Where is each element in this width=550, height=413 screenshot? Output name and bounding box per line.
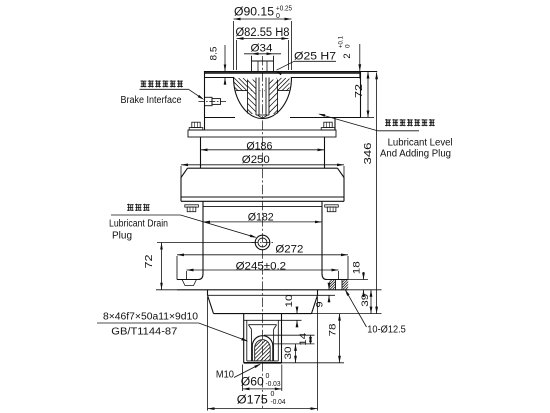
dimension 18	[348, 261, 382, 297]
dimension 14	[264, 333, 315, 346]
svg-text:0: 0	[266, 373, 270, 380]
brake housing plate underside	[205, 77, 361, 79]
svg-text:Lubricant Level: Lubricant Level	[388, 137, 453, 148]
brake housing top plate (thick)	[204, 72, 377, 73]
dimension 9	[315, 283, 336, 308]
svg-text:Plug: Plug	[112, 230, 132, 241]
label Plug	[112, 230, 132, 241]
svg-text:Ø245±0.2: Ø245±0.2	[236, 260, 287, 272]
svg-text:Ø82.55 H8: Ø82.55 H8	[236, 27, 290, 39]
output flange Ø272 body	[177, 280, 348, 290]
svg-text:8.5: 8.5	[209, 47, 220, 61]
svg-text:Ø186: Ø186	[246, 140, 272, 152]
svg-text:Ø25 H7: Ø25 H7	[294, 51, 336, 63]
svg-text:M10: M10	[216, 368, 234, 380]
dimension 78	[282, 314, 345, 363]
dimension 30	[283, 344, 297, 363]
dimension Ø272	[177, 243, 348, 279]
hub counterbore	[247, 320, 278, 361]
svg-text:Ø182: Ø182	[248, 211, 274, 223]
dimension Ø82.55 H8	[236, 27, 290, 70]
dimension 8.5	[209, 45, 227, 85]
dome hatched wall left band	[212, 79, 294, 115]
label brake interface (CJK)	[141, 80, 184, 87]
svg-text:72: 72	[144, 254, 155, 269]
label oil fill port (CJK)	[385, 119, 435, 126]
dimension 10 (cone to shoulder)	[282, 295, 302, 328]
dimension 346	[312, 72, 382, 313]
svg-text:Ø60: Ø60	[241, 377, 264, 389]
body Ø182 walls	[203, 201, 322, 273]
svg-text:Brake Interface: Brake Interface	[121, 95, 182, 106]
output hub outer	[244, 314, 282, 363]
svg-text:18: 18	[351, 261, 362, 274]
drain plug	[252, 235, 274, 250]
brake housing right wall	[360, 72, 362, 118]
dimension 72 left	[144, 243, 255, 290]
svg-text:Ø34: Ø34	[251, 43, 273, 55]
svg-text:0: 0	[276, 13, 280, 20]
label oil fill leader	[318, 114, 419, 131]
label Lubricant Drain	[109, 218, 168, 229]
svg-text:Ø90.15: Ø90.15	[234, 7, 274, 19]
dimension 2 +0.1/0	[338, 36, 362, 79]
flange Ø212 outline	[188, 130, 336, 137]
label drain plug (CJK)	[127, 204, 150, 211]
svg-text:Lubricant Drain: Lubricant Drain	[109, 218, 168, 229]
brake oil port fitting	[199, 97, 227, 105]
dome right shoulder block	[264, 78, 303, 114]
dimension Ø182	[203, 211, 322, 223]
input shaft stub Ø34	[252, 56, 274, 72]
spline bore end arch	[229, 336, 297, 361]
svg-text:78: 78	[328, 324, 339, 337]
flange bolt left	[189, 122, 203, 130]
brake housing left wall	[204, 72, 206, 131]
spigot Ø175	[208, 290, 318, 296]
label And Adding Plug	[380, 149, 451, 160]
svg-text:-0.03: -0.03	[266, 381, 281, 388]
label Lubricant Level	[388, 137, 453, 148]
svg-text:39: 39	[360, 294, 371, 307]
svg-text:8×46f7×50a11×9d10: 8×46f7×50a11×9d10	[103, 312, 198, 323]
dimension 72 right	[354, 72, 374, 118]
cylinder bolt right	[325, 205, 339, 212]
svg-text:9: 9	[315, 302, 326, 308]
svg-text:10: 10	[284, 295, 295, 308]
dimension Ø250	[181, 154, 344, 178]
label Brake Interface	[121, 95, 182, 106]
body fillets to flange	[199, 274, 327, 280]
svg-text:-0.04: -0.04	[271, 399, 286, 406]
dimension Ø34	[244, 43, 281, 56]
label brake interface leader	[140, 89, 205, 100]
svg-text:0: 0	[271, 391, 275, 398]
label spline spec	[97, 312, 248, 342]
dimension Ø245±0.2	[187, 260, 339, 279]
ring gear cylinder Ø250	[181, 168, 344, 201]
brake housing right step wall	[334, 118, 336, 131]
svg-text:Ø250: Ø250	[242, 154, 270, 166]
svg-text:Ø272: Ø272	[275, 243, 303, 255]
dimension Ø186	[201, 140, 325, 152]
hub bottom face (thick)	[244, 362, 282, 364]
main centerline	[262, 56, 264, 410]
neck Ø186 walls	[201, 137, 325, 168]
label M10	[216, 364, 261, 381]
svg-text:+0.25: +0.25	[276, 6, 292, 13]
dome left shoulder block	[221, 78, 265, 114]
svg-text:+0.1: +0.1	[338, 36, 345, 48]
svg-text:72: 72	[354, 83, 365, 98]
dimension Ø60 0/-0.03	[241, 365, 282, 392]
flange bolt right	[321, 122, 335, 130]
svg-text:0: 0	[345, 44, 352, 48]
dome outer curve	[234, 77, 292, 118]
flange bolt hole 10-Ø12.5	[320, 280, 358, 290]
svg-text:2: 2	[342, 53, 353, 58]
dimension 39	[360, 290, 372, 314]
cone section	[208, 295, 318, 313]
svg-text:346: 346	[363, 142, 374, 165]
cylinder bolt left	[185, 205, 199, 212]
label 10-Ø12.5 leader	[345, 289, 406, 335]
label drain leader	[111, 215, 257, 238]
svg-text:GB/T1144-87: GB/T1144-87	[111, 325, 177, 337]
svg-text:30: 30	[283, 347, 294, 360]
brake housing interior floor	[205, 117, 361, 119]
dimension Ø90.15 +0.25/0	[234, 6, 293, 71]
label Ø25 H7 with leader	[275, 51, 336, 76]
dome hatched wall right band	[233, 79, 315, 115]
svg-text:10-Ø12.5: 10-Ø12.5	[367, 323, 406, 335]
input spline bore walls	[256, 78, 269, 119]
dimension Ø175 0/-0.04	[208, 297, 318, 411]
svg-text:Ø175: Ø175	[237, 395, 268, 407]
svg-text:And Adding Plug: And Adding Plug	[380, 149, 451, 160]
